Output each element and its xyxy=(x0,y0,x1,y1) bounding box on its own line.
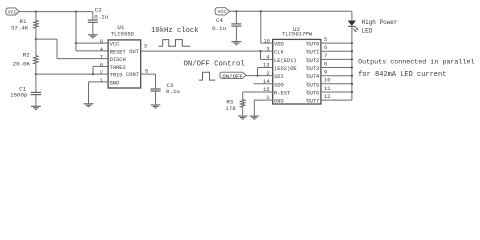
svg-text:8: 8 xyxy=(100,39,103,45)
label U2 refdes xyxy=(293,26,300,33)
label C4 value 0.1u xyxy=(212,25,226,32)
svg-text:OUT7: OUT7 xyxy=(306,99,319,105)
power flag VCC (left) xyxy=(6,8,19,15)
svg-text:8: 8 xyxy=(324,61,327,67)
svg-text:1: 1 xyxy=(100,78,103,84)
label U1 pin5 number xyxy=(145,69,148,75)
node C4 junction xyxy=(235,10,237,12)
svg-text:VCC: VCC xyxy=(110,42,120,48)
wire U2 GND stub xyxy=(254,100,272,116)
node R1 top junction xyxy=(35,10,37,12)
svg-text:CONT: CONT xyxy=(126,72,140,78)
ground C2 xyxy=(88,35,98,38)
wires U2 output stubs xyxy=(321,43,352,100)
svg-text:16: 16 xyxy=(264,38,270,44)
label C4 xyxy=(216,17,223,24)
svg-text:SDI: SDI xyxy=(274,74,284,80)
svg-text:C4: C4 xyxy=(216,17,223,24)
labels U2 right pin numbers xyxy=(324,37,330,100)
svg-text:ON/OFF Control: ON/OFF Control xyxy=(184,60,245,68)
resistor R3 xyxy=(241,100,245,108)
wire R1 bottom to DISCH pin7 xyxy=(36,39,108,59)
resistor R2 xyxy=(34,39,38,74)
svg-text:THRES: THRES xyxy=(110,65,126,71)
wire VCC rail left xyxy=(19,11,93,13)
wire U2 VDD drop xyxy=(261,11,273,43)
svg-text:OUT0: OUT0 xyxy=(306,42,319,48)
capacitor C1 xyxy=(31,74,42,106)
wire U1 pin4 stub xyxy=(76,50,108,52)
wire 555 OUT to U2 CLK xyxy=(141,50,273,52)
svg-text:20.0K: 20.0K xyxy=(13,61,31,68)
svg-text:VCC: VCC xyxy=(8,9,17,15)
LED D1 high power xyxy=(348,21,359,32)
svg-text:VDD: VDD xyxy=(274,42,284,48)
label U1 OUT pin name xyxy=(129,49,139,55)
svg-text:R2: R2 xyxy=(23,51,30,58)
capacitor C3 xyxy=(150,89,160,105)
driver U2 TLC5917PW body xyxy=(273,39,321,104)
svg-text:RESET: RESET xyxy=(110,49,127,55)
label R1 value 37.4K xyxy=(11,24,29,31)
svg-text:2: 2 xyxy=(100,70,103,76)
label C3 xyxy=(167,82,174,89)
svg-text:TLC5917PW: TLC5917PW xyxy=(282,31,313,38)
svg-text:R-EXT: R-EXT xyxy=(274,91,291,97)
svg-text:178: 178 xyxy=(225,105,236,112)
node OE branch junction xyxy=(256,74,258,76)
svg-text:OUT4: OUT4 xyxy=(306,74,319,80)
svg-text:9: 9 xyxy=(324,70,327,76)
svg-text:2: 2 xyxy=(266,71,269,77)
label U1 CONT pin name xyxy=(126,72,140,78)
label C1 xyxy=(19,86,26,93)
svg-text:VCC: VCC xyxy=(217,9,226,15)
label U2 pin16 number xyxy=(264,38,270,44)
ground C3 xyxy=(151,105,161,108)
svg-text:1500p: 1500p xyxy=(10,92,28,99)
label U1 part TLC555D xyxy=(111,30,135,37)
label C2 xyxy=(95,7,102,14)
svg-text:SDO: SDO xyxy=(274,82,284,88)
svg-text:CLK: CLK xyxy=(274,50,284,56)
svg-text:7: 7 xyxy=(324,53,327,59)
labels U2 left pin numbers xyxy=(263,46,269,101)
label C2 value 0.1u xyxy=(94,14,108,21)
svg-text:6: 6 xyxy=(100,62,103,68)
svg-text:(ED2)OE: (ED2)OE xyxy=(274,66,297,72)
label R2 value 20.0K xyxy=(13,61,31,68)
svg-text:OUT1: OUT1 xyxy=(306,50,319,56)
wire TRIG net xyxy=(36,73,108,75)
svg-text:OUT5: OUT5 xyxy=(306,82,319,88)
svg-text:GND: GND xyxy=(274,99,284,105)
annotation 10kHz clock xyxy=(151,27,198,35)
node U2 VDD junction xyxy=(260,10,262,12)
svg-text:OUT2: OUT2 xyxy=(306,58,319,64)
svg-text:ON/OFF: ON/OFF xyxy=(222,73,243,80)
pulse waveform glyph xyxy=(199,72,216,80)
annotation High Power xyxy=(362,19,398,26)
wire U1 CONT stub xyxy=(141,74,156,89)
svg-text:4: 4 xyxy=(100,47,103,53)
node CLK-LE junction xyxy=(259,50,261,52)
ground R3 xyxy=(238,116,247,119)
wire output parallel bus xyxy=(351,43,353,100)
nodes output bus junctions xyxy=(351,42,353,93)
wire VCC rail right xyxy=(229,10,352,12)
label R3 xyxy=(226,98,233,105)
svg-text:0.1u: 0.1u xyxy=(212,25,226,32)
clock waveform glyph xyxy=(158,40,190,47)
svg-text:OUT6: OUT6 xyxy=(306,91,319,97)
timer U1 TLC555D body xyxy=(108,40,141,88)
node R2-C1-TRIG junction xyxy=(35,73,37,75)
wire LED to output bus xyxy=(351,26,353,43)
svg-text:TLC555D: TLC555D xyxy=(111,30,135,37)
svg-text:7: 7 xyxy=(100,55,103,61)
node U1 supply junction xyxy=(75,10,77,12)
wire U1 VCC drop xyxy=(75,12,77,51)
svg-text:3: 3 xyxy=(144,43,147,49)
svg-text:4: 4 xyxy=(266,54,269,60)
label C1 value 1500p xyxy=(10,92,28,99)
svg-text:OUT: OUT xyxy=(129,49,139,55)
svg-text:LE(ED1): LE(ED1) xyxy=(274,58,297,64)
label U2 part TLC5917PW xyxy=(282,31,313,38)
label C3 value 0.1u xyxy=(166,88,180,95)
svg-text:0.1u: 0.1u xyxy=(166,88,180,95)
svg-text:10kHz clock: 10kHz clock xyxy=(151,27,198,35)
wire R-EXT stub xyxy=(243,92,273,100)
capacitor C4 xyxy=(231,11,241,41)
resistor R1 xyxy=(34,12,38,39)
svg-text:5: 5 xyxy=(324,37,327,43)
annotation ON/OFF Control xyxy=(184,60,245,68)
wire VCC to LED xyxy=(351,11,353,20)
node U1 pin8 junction xyxy=(75,42,77,44)
svg-text:TRIG: TRIG xyxy=(110,73,123,79)
svg-text:OUT3: OUT3 xyxy=(306,66,319,72)
wire U2 SDO stub xyxy=(254,83,273,85)
ground C1 xyxy=(31,106,41,109)
wire OE branch xyxy=(258,68,273,76)
input flag ON/OFF xyxy=(220,72,246,80)
wire U1 GND stub xyxy=(89,82,109,104)
svg-text:11: 11 xyxy=(324,86,330,92)
label R1 xyxy=(20,18,27,25)
svg-text:for 842mA LED current: for 842mA LED current xyxy=(358,71,446,79)
label R3 value 178 xyxy=(225,105,236,112)
wire U1 THRES stub xyxy=(93,66,108,74)
ground U1 GND xyxy=(84,104,94,107)
label U1 refdes xyxy=(117,24,124,31)
svg-text:0.1u: 0.1u xyxy=(94,14,108,21)
svg-text:37.4K: 37.4K xyxy=(11,24,29,31)
svg-text:13: 13 xyxy=(263,63,269,69)
svg-text:DISCH: DISCH xyxy=(110,57,126,63)
node R1-R2-DISCH junction xyxy=(35,38,37,40)
svg-text:6: 6 xyxy=(324,45,327,51)
svg-text:3: 3 xyxy=(266,46,269,52)
labels U1 left pin numbers xyxy=(100,39,103,84)
wire U1 pin8 stub xyxy=(76,42,108,44)
node THRES-TRIG junction xyxy=(92,73,94,75)
svg-text:High Power: High Power xyxy=(362,19,398,26)
svg-text:12: 12 xyxy=(324,94,330,100)
label U1 pin3 number xyxy=(144,43,147,49)
labels U2 right pin names xyxy=(306,42,319,105)
svg-text:Outputs connected in parallel: Outputs connected in parallel xyxy=(358,58,474,66)
wire ON/OFF to SDI xyxy=(246,75,273,77)
wire R3 to ground xyxy=(242,107,244,116)
annotation outputs parallel line2 xyxy=(358,71,446,79)
svg-text:10: 10 xyxy=(324,78,330,84)
power flag VCC (right) xyxy=(215,8,229,16)
labels U1 left pin names xyxy=(110,42,127,87)
annotation outputs parallel line1 xyxy=(358,58,474,66)
ground C4 xyxy=(231,42,241,45)
annotation LED xyxy=(362,27,373,34)
ground U2 GND xyxy=(250,116,259,119)
labels U2 left pin names xyxy=(274,42,297,105)
capacitor C2 xyxy=(88,12,98,35)
svg-text:GND: GND xyxy=(110,80,120,86)
svg-text:LED: LED xyxy=(362,27,373,34)
label R2 xyxy=(23,51,30,58)
wire CLK to LE link xyxy=(261,51,273,59)
